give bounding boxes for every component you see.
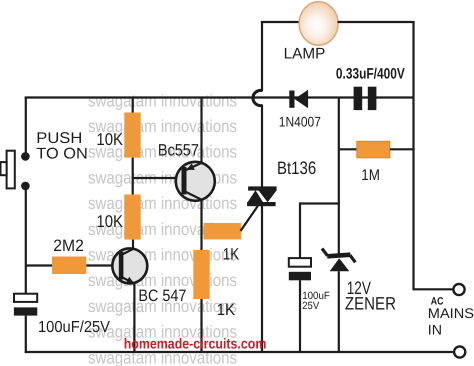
wire between 10K resistors: [132, 158, 134, 196]
resistor R2 10K: [124, 195, 140, 240]
svg-text:100uF/25V: 100uF/25V: [38, 319, 110, 336]
svg-text:swagatam innovations: swagatam innovations: [88, 245, 237, 265]
wire lamp rail left: [261, 21, 300, 23]
svg-text:25V: 25V: [302, 300, 319, 312]
wire left rail bottom: [25, 316, 27, 353]
svg-text:10K: 10K: [96, 212, 123, 231]
wire zener branch upper: [338, 204, 340, 255]
resistor R5 1K vertical: [193, 250, 209, 299]
wire 10K divider top stub: [132, 97, 134, 114]
wire zener branch lower: [338, 271, 340, 353]
diode D1 1N4007: [289, 90, 308, 108]
wire Bc557 collector down: [200, 200, 202, 252]
svg-text:LAMP: LAMP: [284, 46, 326, 63]
transistor Q1 Bc557: [176, 162, 215, 201]
svg-text:MAINS: MAINS: [428, 305, 474, 321]
wire left rail lower: [25, 188, 27, 295]
svg-text:ZENER: ZENER: [345, 294, 396, 314]
wire 1M left lead: [339, 148, 358, 150]
svg-text:BC 547: BC 547: [138, 287, 186, 305]
resistor R6 1M: [357, 141, 390, 158]
wire 2M2 to BC547 base: [86, 264, 119, 266]
wire jump hook: [253, 90, 262, 105]
label PUSH TO ON: [36, 130, 88, 162]
wire 2M2 node: [25, 264, 53, 266]
resistor R3 2M2: [52, 257, 86, 275]
terminal AC bottom: [454, 346, 465, 357]
wire triac down to bottom rail: [261, 206, 263, 353]
push button S1: [1, 151, 30, 191]
svg-text:swagatam innovations: swagatam innovations: [88, 90, 237, 110]
wire top rail: [25, 96, 414, 98]
svg-text:1K: 1K: [223, 246, 239, 264]
svg-text:10K: 10K: [96, 130, 123, 149]
wire bottom rail: [25, 351, 453, 353]
capacitor C2 0.33uF/400V: [354, 87, 377, 110]
wire Bc557 emitter to top rail: [200, 97, 202, 164]
resistor R4 1K horizontal: [204, 223, 242, 239]
capacitor C1 100uF/25V left: [14, 294, 37, 316]
wire T branch to cap: [299, 202, 340, 204]
wire lamp branch left vertical upper: [261, 21, 263, 92]
svg-text:2M2: 2M2: [53, 237, 84, 255]
capacitor C3 100uF/25V right: [289, 258, 311, 280]
wire cap branch upper: [299, 203, 301, 260]
svg-text:TO ON: TO ON: [36, 145, 88, 162]
resistor R1 10K: [124, 113, 140, 158]
wire right rail: [414, 21, 453, 289]
wire cap branch lower: [299, 280, 301, 353]
svg-text:1K: 1K: [217, 301, 236, 319]
svg-text:Bt136: Bt136: [277, 158, 316, 178]
wire Bc557 base: [132, 177, 182, 179]
watermark swagatam innovations rows: [88, 90, 237, 366]
wire gate diagonal to triac: [241, 206, 258, 231]
wire R2 bottom to BC547 collector: [132, 240, 134, 250]
svg-text:swagatam innovations: swagatam innovations: [88, 193, 237, 213]
svg-text:homemade-circuits.com: homemade-circuits.com: [124, 337, 267, 353]
svg-text:0.33uF/400V: 0.33uF/400V: [336, 66, 405, 83]
wire lamp rail right: [338, 21, 415, 23]
label 100uF 25V: [302, 290, 330, 312]
triac T1 Bt136: [247, 186, 277, 206]
label AC MAINS IN: [428, 295, 474, 337]
lamp LA1: [299, 2, 338, 46]
transistor Q2 BC547: [112, 248, 147, 283]
wire BC547 emitter down: [133, 284, 135, 354]
svg-text:IN: IN: [428, 321, 442, 337]
svg-text:Bc557: Bc557: [158, 141, 199, 159]
terminal AC top: [453, 284, 464, 295]
wire 1M right lead: [390, 148, 415, 150]
svg-text:1M: 1M: [361, 167, 380, 184]
label 12V ZENER: [345, 278, 396, 314]
wire left rail upper: [25, 97, 27, 155]
wire below 1K vertical: [200, 299, 202, 353]
zener D2 12V: [322, 249, 355, 272]
wire lamp branch vertical to triac: [261, 105, 263, 188]
wire junction branch x339: [338, 97, 340, 205]
svg-text:1N4007: 1N4007: [279, 114, 321, 130]
